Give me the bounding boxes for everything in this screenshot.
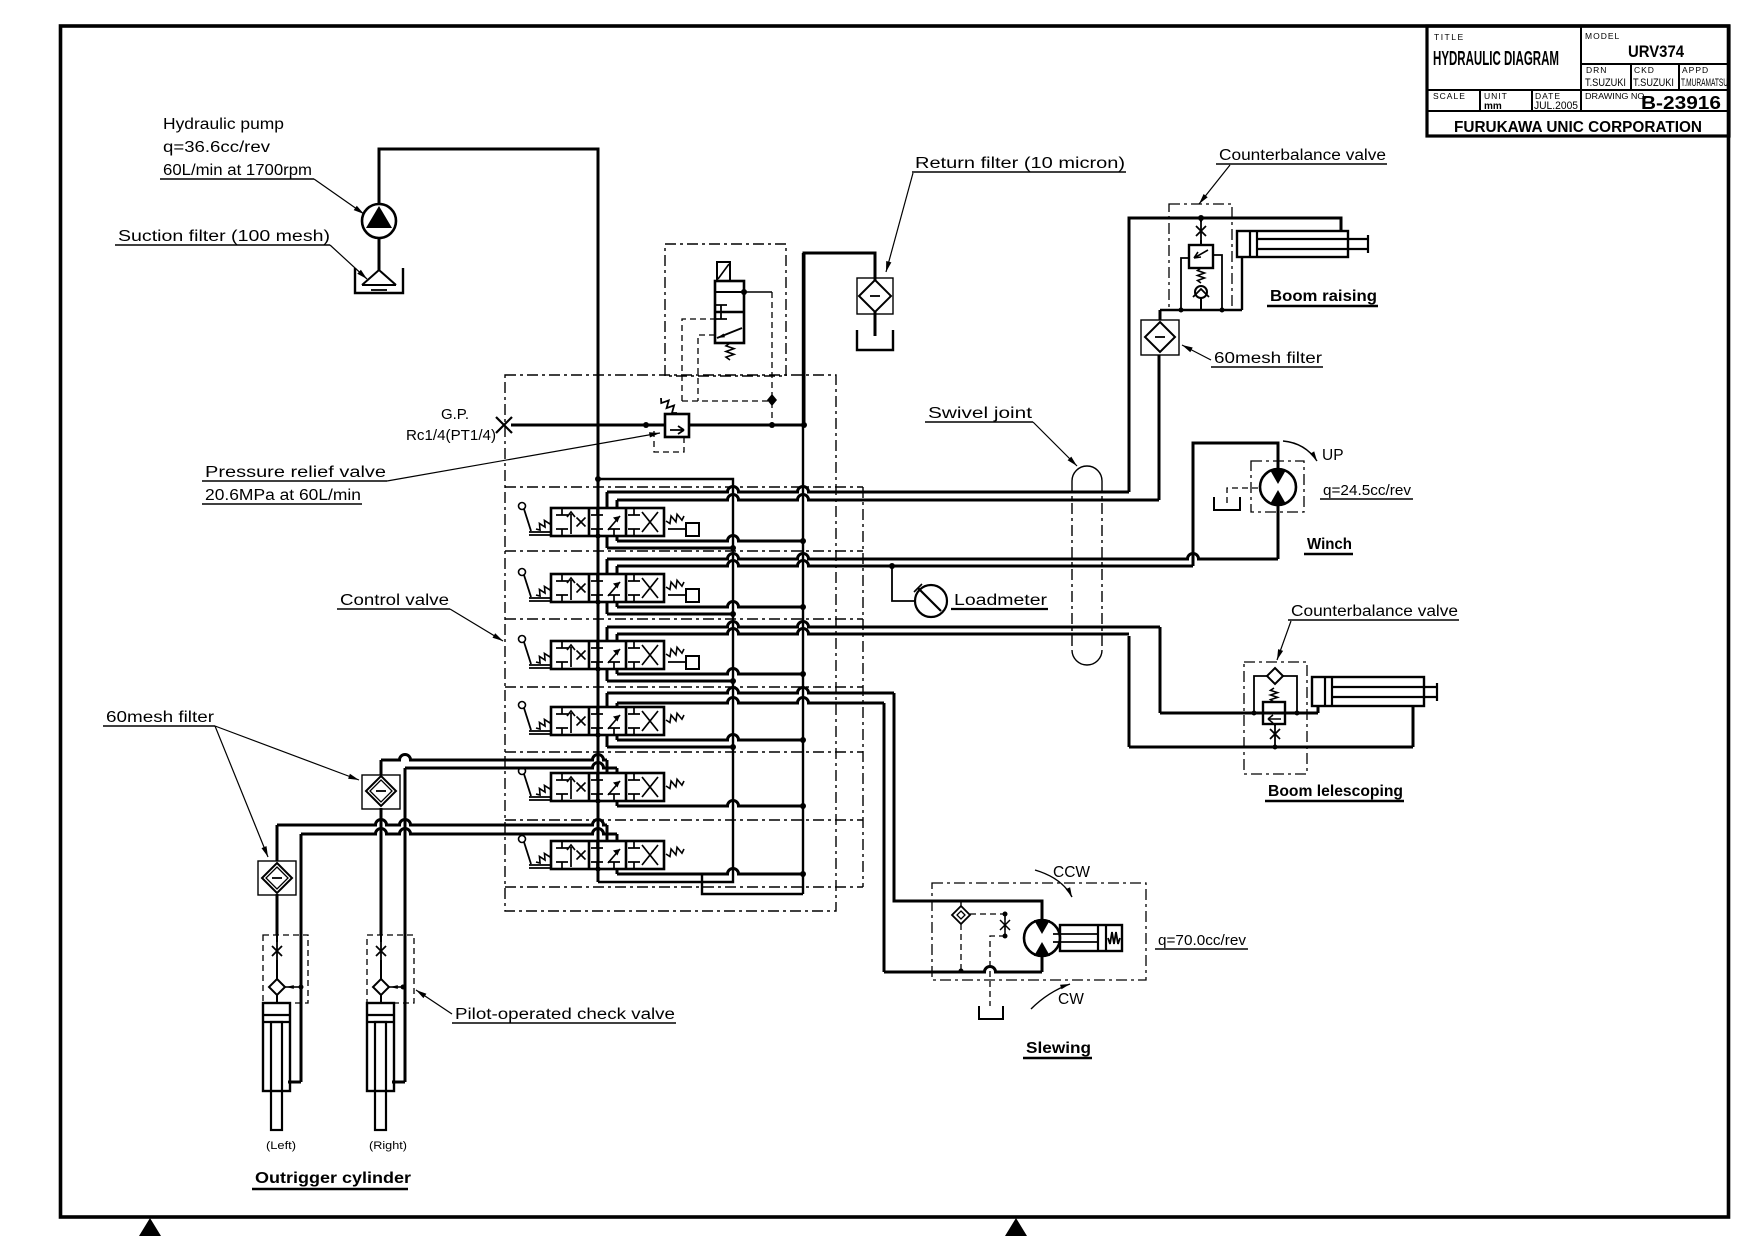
svg-text:G.P.: G.P. <box>441 406 469 423</box>
wire S4 port B <box>616 703 619 707</box>
svg-text:Swivel joint: Swivel joint <box>928 405 1033 422</box>
svg-text:JUL.2005: JUL.2005 <box>1534 100 1578 112</box>
leaders to 60mesh filters <box>215 726 359 780</box>
svg-text:UP: UP <box>1322 447 1344 464</box>
svg-text:Boom raising: Boom raising <box>1270 288 1377 305</box>
60mesh filter outrigger right line <box>380 760 383 775</box>
relief valve pilot dashed box <box>654 431 684 452</box>
wire winch loop <box>1193 443 1278 566</box>
svg-text:DRAWING NO.: DRAWING NO. <box>1585 91 1647 101</box>
wire return line to filter <box>804 253 875 425</box>
wire S3 return b <box>606 669 609 681</box>
svg-text:HYDRAULIC DIAGRAM: HYDRAULIC DIAGRAM <box>1433 48 1559 70</box>
wire S3 port A <box>606 627 609 641</box>
svg-text:Suction filter (100 mesh): Suction filter (100 mesh) <box>118 228 330 245</box>
counterbalance valve bypass wires <box>1160 309 1242 311</box>
svg-text:T.SUZUKI: T.SUZUKI <box>1633 77 1674 89</box>
control valve section 1 body <box>551 508 664 536</box>
pilot operated check valve left <box>263 935 308 1003</box>
winch motor M1 <box>1260 469 1296 505</box>
control valve section 4 gallery junction <box>595 732 600 737</box>
return filter F1 <box>857 278 893 314</box>
node G.P. port symbol <box>496 417 512 433</box>
control valve section 4 left spring <box>536 719 551 729</box>
control valve section 1 left spring <box>536 520 551 530</box>
control valve section 2 body <box>551 574 664 602</box>
wire S2 port B <box>616 566 619 574</box>
leader to suction filter <box>330 245 367 279</box>
section divider dash-dot <box>505 618 863 620</box>
leader to counterbalance valve right <box>1277 621 1291 660</box>
control valve section 6 left spring <box>536 853 551 863</box>
pilot operated check valve right <box>367 935 414 1003</box>
svg-text:(Left): (Left) <box>266 1140 296 1152</box>
wire slewing A line <box>894 693 1042 920</box>
leader to pump <box>314 179 364 214</box>
leader to counterbalance valve top <box>1199 165 1230 204</box>
control valve section 3 pilot box <box>668 661 686 663</box>
leader to control valve <box>450 609 503 641</box>
svg-text:Counterbalance valve: Counterbalance valve <box>1291 603 1458 620</box>
section divider dash-dot <box>505 550 863 552</box>
svg-text:CW: CW <box>1058 991 1084 1008</box>
slewing enclosure dash-dot <box>932 883 1146 980</box>
control valve section 4 body <box>551 707 664 735</box>
wire G.P. pressure line <box>511 424 665 427</box>
control valve section 5 left spring <box>536 785 551 795</box>
wire S5 port A <box>606 760 609 773</box>
wire open center gallery <box>598 479 733 882</box>
wire boom raising A line <box>1129 218 1341 492</box>
control valve section 2 left spring <box>536 586 551 596</box>
hydraulic pump P1 <box>362 204 396 238</box>
outrigger cylinder left <box>263 1003 290 1091</box>
wire S4 port A <box>606 693 609 707</box>
wire S1 return b <box>606 536 609 548</box>
wire filter to tank <box>874 312 877 336</box>
counterbalance valve telescoping <box>1263 702 1285 724</box>
svg-text:Pressure relief valve: Pressure relief valve <box>205 464 386 481</box>
control valve section 5 right spring <box>666 779 684 788</box>
wire left outrigger rod line <box>300 834 303 1082</box>
svg-text:60mesh filter: 60mesh filter <box>106 709 214 726</box>
wire S3 port B <box>616 634 619 641</box>
outrigger cylinder right <box>367 1003 394 1091</box>
section divider dash-dot <box>505 486 863 488</box>
svg-text:q=70.0cc/rev: q=70.0cc/rev <box>1158 932 1246 949</box>
leader to relief valve <box>387 433 660 481</box>
wire S1 port B <box>616 500 619 508</box>
unloading valve V7 <box>715 281 744 343</box>
boom telescoping cylinder <box>1312 677 1424 706</box>
svg-text:Return filter (10 micron): Return filter (10 micron) <box>915 155 1125 172</box>
svg-text:CCW: CCW <box>1053 864 1090 881</box>
leader to check valve <box>416 990 452 1014</box>
svg-text:T.SUZUKI: T.SUZUKI <box>1585 77 1626 89</box>
svg-text:DRN: DRN <box>1586 65 1607 75</box>
section divider dash-dot <box>505 686 863 688</box>
svg-text:APPD: APPD <box>1682 65 1709 75</box>
slewing check valve <box>960 901 962 907</box>
wire S6 port A <box>606 825 609 841</box>
svg-text:60L/min at 1700rpm: 60L/min at 1700rpm <box>163 162 312 179</box>
control valve inner boundary dash-dot <box>862 487 864 887</box>
control valve section 6 right spring <box>666 847 684 856</box>
wire filter to counterbalance valve <box>1159 310 1162 320</box>
wire slewing B line <box>883 703 886 972</box>
wire telescoping main line <box>1160 712 1318 715</box>
wire S5 port B <box>616 768 619 773</box>
control valve section 6 body <box>551 841 664 869</box>
control valve section 2 gallery junction <box>595 599 600 604</box>
counterbalance valve boom raising enclosure <box>1169 204 1232 310</box>
unloading valve spring <box>726 343 734 360</box>
winch drain dashed to tank <box>1227 488 1258 504</box>
svg-text:T.MURAMATSU: T.MURAMATSU <box>1681 77 1728 89</box>
svg-text:Control valve: Control valve <box>340 592 449 609</box>
svg-text:Winch: Winch <box>1307 536 1352 553</box>
svg-text:SCALE: SCALE <box>1433 91 1466 101</box>
svg-text:B-23916: B-23916 <box>1641 93 1721 113</box>
wire S1 port A <box>606 492 609 508</box>
slewing motor M2 <box>1024 920 1060 956</box>
svg-text:TITLE: TITLE <box>1434 32 1465 42</box>
control valve section 3 body <box>551 641 664 669</box>
control valve section 3 left spring <box>536 653 551 663</box>
wire telescoping A line <box>1159 627 1162 713</box>
wire S6 port B <box>616 834 619 841</box>
pilot lines dashed <box>682 319 715 401</box>
control valve enclosure dash-dot box <box>505 375 836 911</box>
slewing pilot dashed lines <box>960 924 962 969</box>
leader to 60mesh filter right <box>1182 345 1211 360</box>
wire S2 return b <box>606 602 609 614</box>
loadmeter gauge <box>915 585 947 617</box>
control valve section 3 lever <box>519 636 526 643</box>
section divider dash-dot <box>505 886 863 888</box>
control valve section 2 pilot box <box>668 594 686 596</box>
wire right outrigger rod line <box>404 768 407 1082</box>
control valve section 6 gallery junction <box>595 866 600 871</box>
svg-text:CKD: CKD <box>1634 65 1655 75</box>
wire pump suction <box>378 238 381 271</box>
control valve section 4 lever <box>519 702 526 709</box>
wire return gallery vertical <box>802 253 804 894</box>
control valve section 2 right spring <box>666 580 684 589</box>
counterbalance valve boom raising <box>1200 218 1202 222</box>
winch motor case dash-dot <box>1251 461 1304 512</box>
svg-text:Counterbalance valve: Counterbalance valve <box>1219 147 1386 164</box>
section divider dash-dot <box>505 751 863 753</box>
wire S3 return a <box>616 669 619 674</box>
svg-text:(Right): (Right) <box>369 1140 407 1152</box>
unloading valve enclosure dash-dot box <box>665 244 786 376</box>
svg-text:20.6MPa at 60L/min: 20.6MPa at 60L/min <box>205 487 361 504</box>
tank return <box>857 330 893 350</box>
counterbalance valve telescoping enclosure <box>1244 662 1307 774</box>
svg-text:UNIT: UNIT <box>1484 91 1508 101</box>
wire pump gallery vertical <box>597 425 600 882</box>
svg-text:URV374: URV374 <box>1628 42 1684 61</box>
section divider dash-dot <box>505 819 863 821</box>
60mesh filter outrigger left line <box>276 825 279 861</box>
control valve section 2 lever <box>519 569 526 576</box>
wire pump outlet to control valve <box>379 149 598 425</box>
control valve section 1 pilot box <box>668 528 686 530</box>
control valve section 5 body <box>551 773 664 801</box>
svg-text:mm: mm <box>1484 101 1502 112</box>
svg-text:Rc1/4(PT1/4): Rc1/4(PT1/4) <box>406 427 496 444</box>
svg-text:Hydraulic pump: Hydraulic pump <box>163 116 284 133</box>
svg-text:Outrigger cylinder: Outrigger cylinder <box>255 1170 411 1187</box>
control valve section 6 lever <box>519 836 526 843</box>
swivel joint <box>1072 466 1102 481</box>
boom raising cylinder <box>1237 231 1348 257</box>
wire return gallery bottom leg <box>702 874 803 894</box>
control valve section 3 right spring <box>666 647 684 656</box>
svg-text:MODEL: MODEL <box>1585 31 1620 41</box>
control valve section 1 right spring <box>666 514 684 523</box>
wire loadmeter tap <box>892 566 915 601</box>
registration mark triangle left <box>139 1218 161 1236</box>
control valve section 1 lever <box>519 503 526 510</box>
wire S1 return a <box>616 536 619 541</box>
tank winch drain <box>1214 497 1240 510</box>
svg-text:q=24.5cc/rev: q=24.5cc/rev <box>1323 482 1411 499</box>
tank slewing drain <box>979 1006 1003 1019</box>
control valve section 3 gallery junction <box>595 666 600 671</box>
control valve section 5 lever <box>519 768 526 775</box>
control valve section 4 right spring <box>666 713 684 722</box>
wire S4 return b <box>606 735 609 747</box>
wire S5 return <box>616 801 619 806</box>
svg-text:q=36.6cc/rev: q=36.6cc/rev <box>163 139 270 156</box>
wire telescoping bottom line <box>1129 746 1413 749</box>
wire boom raising B line <box>1158 355 1161 500</box>
60mesh filter boom <box>1141 320 1179 355</box>
wire S2 return a <box>616 602 619 607</box>
slewing brake cylinder <box>1060 925 1122 951</box>
control valve section 1 gallery junction <box>595 533 600 538</box>
control valve section 5 gallery junction <box>595 798 600 803</box>
svg-text:Loadmeter: Loadmeter <box>954 592 1047 609</box>
suction filter strainer <box>362 270 396 285</box>
wire telescoping B line <box>1128 636 1131 747</box>
registration mark triangle right <box>1005 1218 1027 1236</box>
svg-text:FURUKAWA UNIC CORPORATION: FURUKAWA UNIC CORPORATION <box>1454 119 1702 136</box>
wire S6 return <box>616 869 619 874</box>
leader to return filter <box>886 173 913 272</box>
wire S4 return a <box>616 735 619 740</box>
leader to swivel joint <box>1033 422 1077 466</box>
pressure relief valve RV1 <box>665 414 689 437</box>
svg-text:Boom lelescoping: Boom lelescoping <box>1268 783 1403 800</box>
svg-text:60mesh filter: 60mesh filter <box>1214 350 1322 367</box>
svg-text:Slewing: Slewing <box>1026 1040 1091 1057</box>
wire S2 port A <box>606 559 609 574</box>
svg-text:Pilot-operated check valve: Pilot-operated check valve <box>455 1006 675 1023</box>
title block <box>1427 26 1729 136</box>
